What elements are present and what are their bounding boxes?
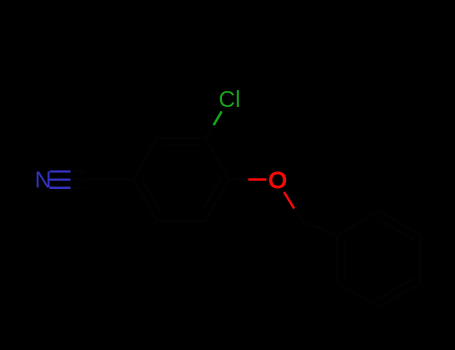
svg-text:Cl: Cl	[219, 86, 241, 112]
bond C3-Cl green half near Cl	[214, 111, 222, 125]
svg-text:N: N	[35, 167, 52, 193]
bond C3-Cl dark half	[205, 125, 213, 138]
bond CH2-C1' (benzylic)	[303, 222, 337, 235]
nitrile single bond C(sp)-C1	[85, 178, 133, 180]
triple bond N#C (blue half near N)	[50, 172, 71, 188]
bond O-CH2 dark half	[294, 209, 303, 222]
bond O-CH2 red half near O	[284, 192, 294, 209]
svg-text:O: O	[269, 167, 287, 193]
bond C4-O dark half	[229, 178, 248, 180]
benzene ring A (benzonitrile ring, carbon bonds nearly black)	[133, 138, 229, 221]
benzene ring B (benzyl phenyl, carbon bonds nearly black)	[337, 211, 420, 307]
bond C4-O red half near O	[248, 178, 266, 180]
triple bond dark half toward carbon	[71, 172, 86, 188]
